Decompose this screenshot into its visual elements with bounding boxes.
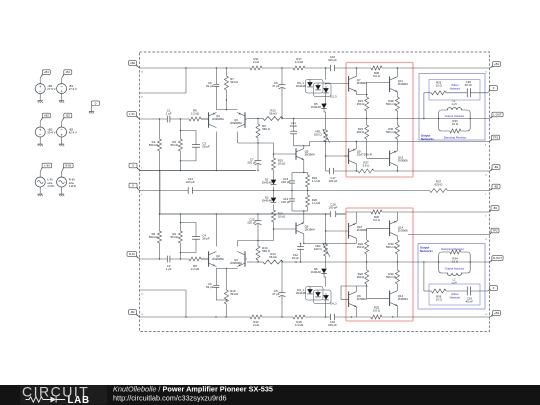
label -B1 27.9 V: [69, 84, 77, 91]
wire: [39, 172, 41, 193]
junction dots: [356, 141, 398, 172]
svg-text:-B2: -B2: [130, 310, 135, 314]
label Q10 2N3906: [357, 225, 367, 232]
svg-text:100 pF: 100 pF: [329, 179, 338, 183]
diode network box D3_2: [314, 83, 332, 97]
svg-text:56 kΩ: 56 kΩ: [170, 143, 178, 147]
flag L-IN: [40, 163, 51, 171]
wire VAS input: [238, 142, 274, 143]
resistor R15: [272, 158, 286, 170]
wire Q14 collector down: [396, 236, 398, 240]
flag TP2 (right border): [490, 228, 500, 234]
svg-text:−: −: [39, 89, 42, 94]
label Q11 2N3904: [398, 79, 408, 86]
wire Q6 collector: [303, 234, 326, 244]
junction dot: [325, 155, 326, 156]
svg-text:500 mΩ: 500 mΩ: [386, 102, 396, 106]
wire Q12 emitter: [396, 284, 398, 291]
svg-text:+: +: [60, 132, 63, 137]
svg-text:100 pF: 100 pF: [328, 323, 337, 327]
svg-text:2N3906: 2N3906: [398, 159, 408, 163]
transistor Q14: [390, 221, 398, 237]
ground: [89, 110, 94, 113]
wire diff pair emitters: [216, 100, 237, 110]
junction dot: [257, 170, 258, 171]
svg-text:5.6 Ω: 5.6 Ω: [363, 164, 370, 168]
svg-text:560 Ω: 560 Ω: [262, 127, 270, 131]
svg-text:150 Ω: 150 Ω: [357, 245, 365, 249]
flag 0 (right border): [490, 286, 498, 292]
resistor R10b: [256, 241, 270, 263]
svg-text:2N3904: 2N3904: [357, 297, 367, 301]
transistor Q9: [349, 149, 357, 165]
voltage source -B2: [57, 127, 67, 137]
wire node 16: [140, 290, 187, 317]
capacitor C8: [206, 68, 219, 110]
capacitor C18: [329, 203, 338, 218]
junction dots: [325, 141, 357, 142]
capacitor C16: [328, 314, 337, 327]
svg-text:2N2905A: 2N2905A: [212, 257, 224, 261]
svg-text:24: 24: [141, 71, 144, 73]
svg-text:100 pF: 100 pF: [281, 200, 290, 204]
label Q4 2N2905A: [230, 258, 242, 265]
diode D6: [311, 267, 327, 274]
transistor Q1: [209, 112, 217, 127]
resistor R28: [371, 66, 382, 78]
resistor R7: [224, 68, 237, 100]
svg-text:1N4148: 1N4148: [311, 270, 321, 274]
wire feedback row: [247, 118, 490, 120]
wire diff pair bases: [201, 118, 247, 120]
diode D3_3: [323, 88, 337, 98]
inductor loop L: [439, 110, 471, 131]
inductor loop R: [439, 252, 471, 273]
svg-text:1N4148: 1N4148: [311, 105, 321, 109]
transistor Q13: [390, 151, 398, 167]
svg-text:100 pF: 100 pF: [329, 206, 338, 210]
svg-text:R-OUT: R-OUT: [493, 256, 502, 260]
wire -B1 rail L: [356, 170, 489, 172]
wire bias links: [310, 80, 326, 89]
svg-text:1N4148: 1N4148: [296, 291, 306, 295]
svg-text:+B1: +B1: [494, 311, 499, 315]
svg-text:-B1: -B1: [66, 70, 71, 74]
svg-text:150 Ω: 150 Ω: [357, 102, 365, 106]
svg-text:56 pF: 56 pF: [202, 237, 210, 241]
zobel network box R (blue): [429, 284, 480, 305]
svg-text:47 μF: 47 μF: [272, 292, 280, 296]
wire TP2 left segment: [325, 243, 344, 244]
wire bias column R bottom: [325, 300, 327, 317]
node number 2: [485, 194, 487, 196]
resistor R6: [189, 109, 201, 122]
wire L-IN input: [140, 118, 209, 120]
svg-text:220 μF: 220 μF: [247, 161, 256, 165]
resistor R33: [450, 119, 461, 133]
junction dots: [159, 118, 181, 119]
wire bias links R: [310, 287, 326, 296]
wire R-IN input: [140, 258, 209, 260]
label Q12 2N3904: [398, 294, 408, 301]
wire Q10 emitter up: [355, 212, 357, 223]
flag R-IN (left border): [127, 252, 140, 259]
resistor R35: [431, 81, 446, 95]
node number 6: [485, 215, 487, 217]
label Damping Resistor L: [444, 135, 467, 139]
flag -B2: [62, 113, 72, 121]
resistor R31: [386, 119, 399, 140]
svg-text:+B2: +B2: [44, 114, 49, 118]
resistor R32: [386, 240, 399, 262]
label Q9 2SA725A-R: [357, 150, 372, 157]
wire: [91, 109, 93, 111]
wire TP2: [408, 234, 490, 236]
resistor R8: [189, 257, 201, 271]
flag 0 (reference ground): [92, 101, 100, 109]
wire diff pair R bases: [201, 258, 247, 260]
junction dots: [226, 299, 227, 300]
svg-text:500 mΩ: 500 mΩ: [386, 275, 396, 279]
svg-text:2N3904: 2N3904: [398, 297, 408, 301]
svg-text:2N2905A: 2N2905A: [230, 121, 242, 125]
wire Q11 collector: [396, 68, 398, 77]
svg-text:L-IN: L-IN: [44, 164, 49, 168]
resistor R24: [357, 240, 369, 262]
resistor R13: [263, 109, 283, 121]
flag +B1 (right border): [490, 62, 501, 68]
svg-text:56 kΩ: 56 kΩ: [170, 235, 178, 239]
wire: [61, 172, 63, 193]
wire: [39, 78, 41, 99]
svg-text:2N3904: 2N3904: [305, 153, 315, 157]
transistor Q6: [296, 223, 304, 235]
node number 10b: [485, 314, 488, 316]
label Q7 2N3904: [357, 78, 367, 85]
wire Q5 base row: [273, 153, 296, 154]
diode network box D4_1: [306, 287, 324, 301]
resistor R20: [306, 195, 320, 207]
diode D4_3: [323, 295, 337, 305]
diode D4_1: [296, 288, 313, 295]
resistor R29: [386, 97, 399, 119]
wire R23 to Q13 base: [367, 139, 390, 158]
wire feedback row R: [247, 261, 490, 263]
wire Q7 emitter path: [356, 91, 367, 95]
wire VAS input R: [238, 240, 274, 241]
wire: [324, 273, 326, 286]
CircuitLab logo: [22, 383, 90, 405]
svg-text:8: 8: [485, 144, 487, 146]
resistor R37: [430, 180, 448, 193]
wire R22 to Q12 base: [367, 284, 390, 298]
capacitor C13: [281, 177, 295, 191]
svg-text:100 pF: 100 pF: [328, 58, 337, 62]
svg-text:+B1: +B1: [494, 62, 499, 66]
output networks box R (blue): [418, 244, 485, 310]
svg-text:2N3904: 2N3904: [305, 228, 315, 232]
transistor Q4: [237, 251, 245, 266]
svg-text:5: 5: [141, 167, 143, 169]
transistor Q11: [390, 77, 398, 93]
flag TP1 (right border): [490, 135, 500, 141]
label -B2 42.4 V: [69, 127, 77, 134]
svg-text:1 kHz: 1 kHz: [69, 184, 77, 188]
svg-text:51: 51: [141, 96, 144, 98]
flag -B2 (left border): [129, 310, 140, 317]
svg-text:Output Inductor: Output Inductor: [445, 266, 465, 270]
diode D1: [262, 178, 277, 185]
ground: [59, 100, 64, 103]
ground: [59, 193, 64, 196]
capacitor C20: [466, 287, 474, 304]
resistor R30: [386, 262, 399, 284]
flag 0 (right border): [490, 86, 498, 92]
junction dots: [185, 316, 393, 317]
svg-text:10 kΩ: 10 kΩ: [278, 162, 286, 166]
output stage highlight box L (red): [346, 63, 413, 178]
svg-text:L-IN: L-IN: [129, 112, 134, 116]
capacitor C11: [290, 119, 298, 146]
wire mid bus R channel: [160, 213, 346, 215]
voltage source R-IN (sine): [57, 177, 67, 187]
svg-text:1 μH: 1 μH: [451, 281, 456, 284]
capacitor C6: [272, 68, 285, 119]
svg-text:R-IN: R-IN: [129, 252, 135, 256]
label Q3 2N2905A: [230, 118, 242, 125]
flag 0 (left border): [129, 183, 140, 190]
svg-text:16: 16: [141, 293, 144, 295]
svg-text:2SA725A-R: 2SA725A-R: [357, 153, 372, 157]
svg-text:5.6 Ω: 5.6 Ω: [373, 309, 380, 313]
voltage source -B1: [57, 84, 67, 94]
wire top supply rail: [140, 67, 490, 69]
svg-text:+B1: +B1: [44, 70, 49, 74]
wire -B1 rail R top: [346, 211, 490, 213]
svg-text:13: 13: [141, 314, 144, 316]
flag 0 (left border): [129, 163, 140, 170]
svg-text:1 μF: 1 μF: [166, 267, 172, 271]
wire Q8 base: [341, 285, 367, 299]
svg-text:10: 10: [485, 174, 488, 176]
svg-text:560 kΩ: 560 kΩ: [149, 235, 158, 239]
wire Q1 collector: [215, 132, 217, 171]
wire diff pair R emitters: [216, 268, 237, 277]
wire bus link: [159, 171, 161, 215]
svg-text:82 pF: 82 pF: [206, 285, 214, 289]
transistor Q3: [237, 112, 245, 127]
wire: [39, 122, 41, 143]
capacitor C9: [206, 268, 226, 300]
wire Q5 emitter down: [303, 160, 304, 174]
capacitor C14: [281, 191, 295, 205]
label Zobel Network R: [450, 292, 461, 299]
wire mid column: [273, 143, 275, 241]
svg-text:500 mΩ: 500 mΩ: [386, 130, 396, 134]
svg-text:220 μF: 220 μF: [247, 221, 256, 225]
junction dots: [257, 261, 471, 262]
flag +B2: [40, 113, 50, 121]
label Output Inductor R: [445, 266, 465, 270]
svg-text:Network: Network: [450, 295, 461, 299]
voltage source +B2: [35, 127, 45, 137]
diode D2: [262, 196, 277, 203]
capacitor C17: [329, 168, 357, 183]
capacitor C21: [186, 177, 195, 194]
resistor R12: [250, 315, 262, 327]
resistor R19: [306, 175, 320, 187]
capacitor C10: [328, 55, 337, 71]
node number 10: [485, 174, 488, 176]
node number 8: [485, 144, 487, 146]
label +B1 27.9 V: [47, 84, 55, 91]
svg-text:39 kΩ: 39 kΩ: [230, 80, 238, 84]
svg-text:-B2: -B2: [66, 114, 71, 118]
wire ground bus 1: [140, 170, 257, 172]
node number 11: [485, 239, 488, 241]
wire: [61, 122, 63, 143]
flag L-IN (left border): [127, 112, 140, 119]
svg-text:-B1: -B1: [494, 165, 499, 169]
wire Q6 emitter up: [303, 210, 304, 223]
svg-text:39 kΩ: 39 kΩ: [230, 292, 238, 296]
svg-text:2N2905A: 2N2905A: [212, 117, 224, 121]
flag -B1: [62, 70, 72, 78]
svg-text:100 pF: 100 pF: [281, 180, 290, 184]
svg-text:40 nF: 40 nF: [465, 83, 473, 87]
svg-text:-B1: -B1: [493, 206, 498, 210]
svg-text:2N3904: 2N3904: [357, 81, 367, 85]
capacitor C7: [247, 143, 261, 171]
resistor R21: [357, 97, 369, 119]
wire x307 link: [0, 0, 1, 1]
ground: [59, 143, 64, 146]
wire bias column top: [325, 68, 327, 80]
ground: [38, 143, 43, 146]
wire Q9 collector down: [355, 164, 357, 171]
diode D3_1: [296, 81, 313, 88]
svg-text:Damping Resistor: Damping Resistor: [444, 135, 467, 139]
svg-text:2 kΩ: 2 kΩ: [253, 323, 259, 327]
flag +B1: [40, 70, 50, 78]
resistor R4: [170, 214, 182, 259]
wire bias column R top: [325, 213, 326, 244]
flag -B1 (right border): [490, 165, 501, 171]
svg-text:1 kHz: 1 kHz: [47, 184, 55, 188]
svg-text:150 Ω: 150 Ω: [357, 130, 365, 134]
wire Q11 emitter path: [396, 92, 398, 97]
svg-text:1 μF: 1 μF: [166, 112, 172, 116]
wire bias mid: [324, 93, 326, 104]
flag +B2 (left border): [129, 61, 140, 68]
svg-text:56 kΩ: 56 kΩ: [269, 112, 277, 116]
svg-text:2.2 kΩ: 2.2 kΩ: [191, 267, 199, 271]
flag L-OUT (right border): [490, 112, 504, 118]
capacitor C4: [180, 222, 210, 253]
svg-text:27.9 V: 27.9 V: [47, 87, 55, 91]
wire Q5 collector node: [294, 145, 310, 149]
svg-text:560 kΩ: 560 kΩ: [149, 143, 158, 147]
node number 13: [141, 314, 144, 316]
resistor R16: [272, 210, 286, 222]
svg-text:Damping Resistor: Damping Resistor: [441, 247, 464, 251]
resistor R18: [293, 315, 305, 327]
inductor L2: [447, 273, 461, 284]
wire Q9 base wire: [326, 155, 349, 157]
svg-text:2 kΩ: 2 kΩ: [253, 60, 259, 64]
svg-text:4: 4: [141, 194, 143, 196]
flag +B1 (right border): [490, 311, 501, 317]
label Damping Resistor R: [441, 247, 464, 251]
transistor Q10: [349, 223, 357, 239]
svg-text:4.3 kΩ: 4.3 kΩ: [295, 60, 303, 64]
transistor Q8: [349, 292, 357, 308]
label Q6 2N3904: [305, 225, 315, 232]
wire VR1 bottom: [325, 142, 327, 171]
svg-text:2N3904: 2N3904: [398, 82, 408, 86]
capacitor C12: [292, 243, 304, 263]
label Q13 2N3906: [398, 156, 408, 163]
svg-text:1 μH: 1 μH: [451, 103, 456, 106]
capacitor C22: [247, 214, 261, 241]
output networks box L (blue): [419, 74, 485, 141]
label Output Networks L: [421, 134, 434, 142]
resistor R10 39k: [224, 277, 237, 317]
capacitor C2: [166, 256, 172, 272]
footer bar: [0, 385, 540, 405]
flag -B1 (right border): [490, 206, 500, 212]
svg-text:56 kΩ: 56 kΩ: [269, 255, 277, 259]
wire node 51: [140, 68, 187, 93]
svg-text:2N3906: 2N3906: [357, 228, 367, 232]
svg-text:Networks: Networks: [421, 137, 434, 141]
wire zobel L: [424, 90, 491, 118]
svg-text:82 pF: 82 pF: [206, 84, 214, 88]
wire: [61, 78, 63, 99]
svg-text:Network: Network: [450, 86, 461, 90]
svg-text:42.4 V: 42.4 V: [69, 131, 77, 135]
capacitor C5: [272, 262, 285, 317]
svg-text:10 kΩ: 10 kΩ: [278, 215, 286, 219]
svg-text:10 Ω: 10 Ω: [436, 298, 442, 302]
svg-text:TP1: TP1: [493, 136, 499, 140]
wire Q9 base: [344, 155, 349, 157]
ground: [38, 193, 43, 196]
node number 4: [141, 194, 143, 196]
diode D4_2: [315, 292, 321, 297]
svg-text:220 μF: 220 μF: [186, 180, 195, 184]
wire Q14 base: [367, 228, 390, 240]
svg-text:1N4148: 1N4148: [296, 84, 306, 88]
wire R-OUT net: [424, 262, 491, 291]
node number 16: [141, 293, 144, 295]
potentiometer VR2: [314, 243, 330, 257]
resistor R3: [170, 119, 182, 171]
svg-text:2N2905A: 2N2905A: [230, 261, 242, 265]
flag -B2 (right border): [490, 184, 501, 190]
wire bottom rail: [140, 316, 490, 318]
svg-text:L-OUT: L-OUT: [493, 113, 502, 117]
wire Q6 base row: [273, 228, 296, 229]
wire Q13 emitter up: [396, 139, 398, 151]
svg-text:620 Ω: 620 Ω: [435, 183, 443, 187]
wire Q10 base wire: [326, 230, 349, 232]
diode D5: [311, 102, 327, 109]
ground: [38, 100, 43, 103]
node number 12: [485, 71, 488, 73]
label Output Inductor L: [445, 114, 465, 118]
resistor R2: [149, 214, 162, 259]
